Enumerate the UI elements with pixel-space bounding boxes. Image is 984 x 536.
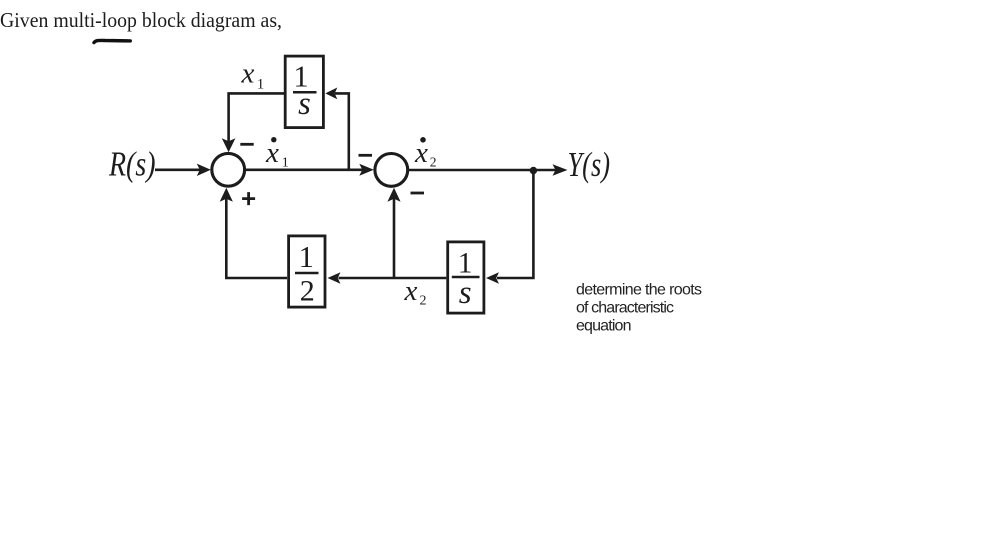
svg-text:1: 1 <box>299 240 314 274</box>
svg-text:R(s): R(s) <box>108 145 155 184</box>
svg-text:determine the roots: determine the roots <box>576 282 702 299</box>
svg-text:of characteristic: of characteristic <box>576 299 674 316</box>
svg-text:Given multi-loop block diagram: Given multi-loop block diagram as, <box>0 8 282 32</box>
svg-text:1: 1 <box>282 155 289 170</box>
svg-text:2: 2 <box>430 155 437 170</box>
svg-text:equation: equation <box>576 317 632 334</box>
svg-text:s: s <box>298 86 311 122</box>
svg-text:1: 1 <box>257 77 265 93</box>
svg-text:2: 2 <box>300 274 315 307</box>
svg-text:x: x <box>404 275 418 307</box>
svg-text:Y(s): Y(s) <box>568 145 611 184</box>
svg-text:x: x <box>241 57 255 89</box>
svg-text:x: x <box>265 137 279 169</box>
svg-text:s: s <box>459 275 472 311</box>
svg-text:x: x <box>414 137 428 169</box>
svg-text:2: 2 <box>420 294 427 309</box>
